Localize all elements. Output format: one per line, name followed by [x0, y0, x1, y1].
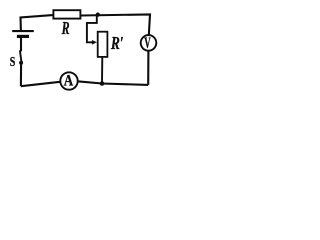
- svg-text:V: V: [144, 35, 151, 52]
- svg-text:A: A: [64, 72, 74, 89]
- wire battery to switch: [20, 36, 22, 51]
- junction dot top: [96, 13, 100, 17]
- rheostat R' box: [98, 32, 108, 57]
- wire bottom-left corner to ammeter: [21, 82, 60, 86]
- svg-text:S: S: [10, 55, 16, 70]
- switch S blade: [20, 50, 22, 63]
- wire bottom-right corner up to voltmeter: [147, 51, 149, 85]
- svg-text:R: R: [61, 18, 70, 38]
- rheostat arrow head: [92, 40, 97, 45]
- wire switch to bottom-left corner: [20, 63, 22, 86]
- battery B1 negative plate: [17, 35, 29, 38]
- wire top-left from battery up and right to resistor R: [21, 15, 53, 31]
- wire voltmeter top to top-right corner and left to junction: [81, 14, 150, 35]
- wire rheostat bottom to junction: [101, 57, 103, 84]
- ammeter A: [60, 72, 77, 89]
- svg-text:R′: R′: [110, 33, 124, 53]
- wire ammeter to bottom junction and bottom-right corner: [77, 81, 148, 85]
- wire junction down-left to rheostat arrow: [87, 15, 97, 42]
- battery B1 positive plate: [12, 30, 34, 32]
- voltmeter V: [141, 35, 157, 51]
- switch S contact dot: [19, 61, 23, 65]
- junction dot bottom: [100, 81, 105, 86]
- resistor R box: [53, 10, 80, 18]
